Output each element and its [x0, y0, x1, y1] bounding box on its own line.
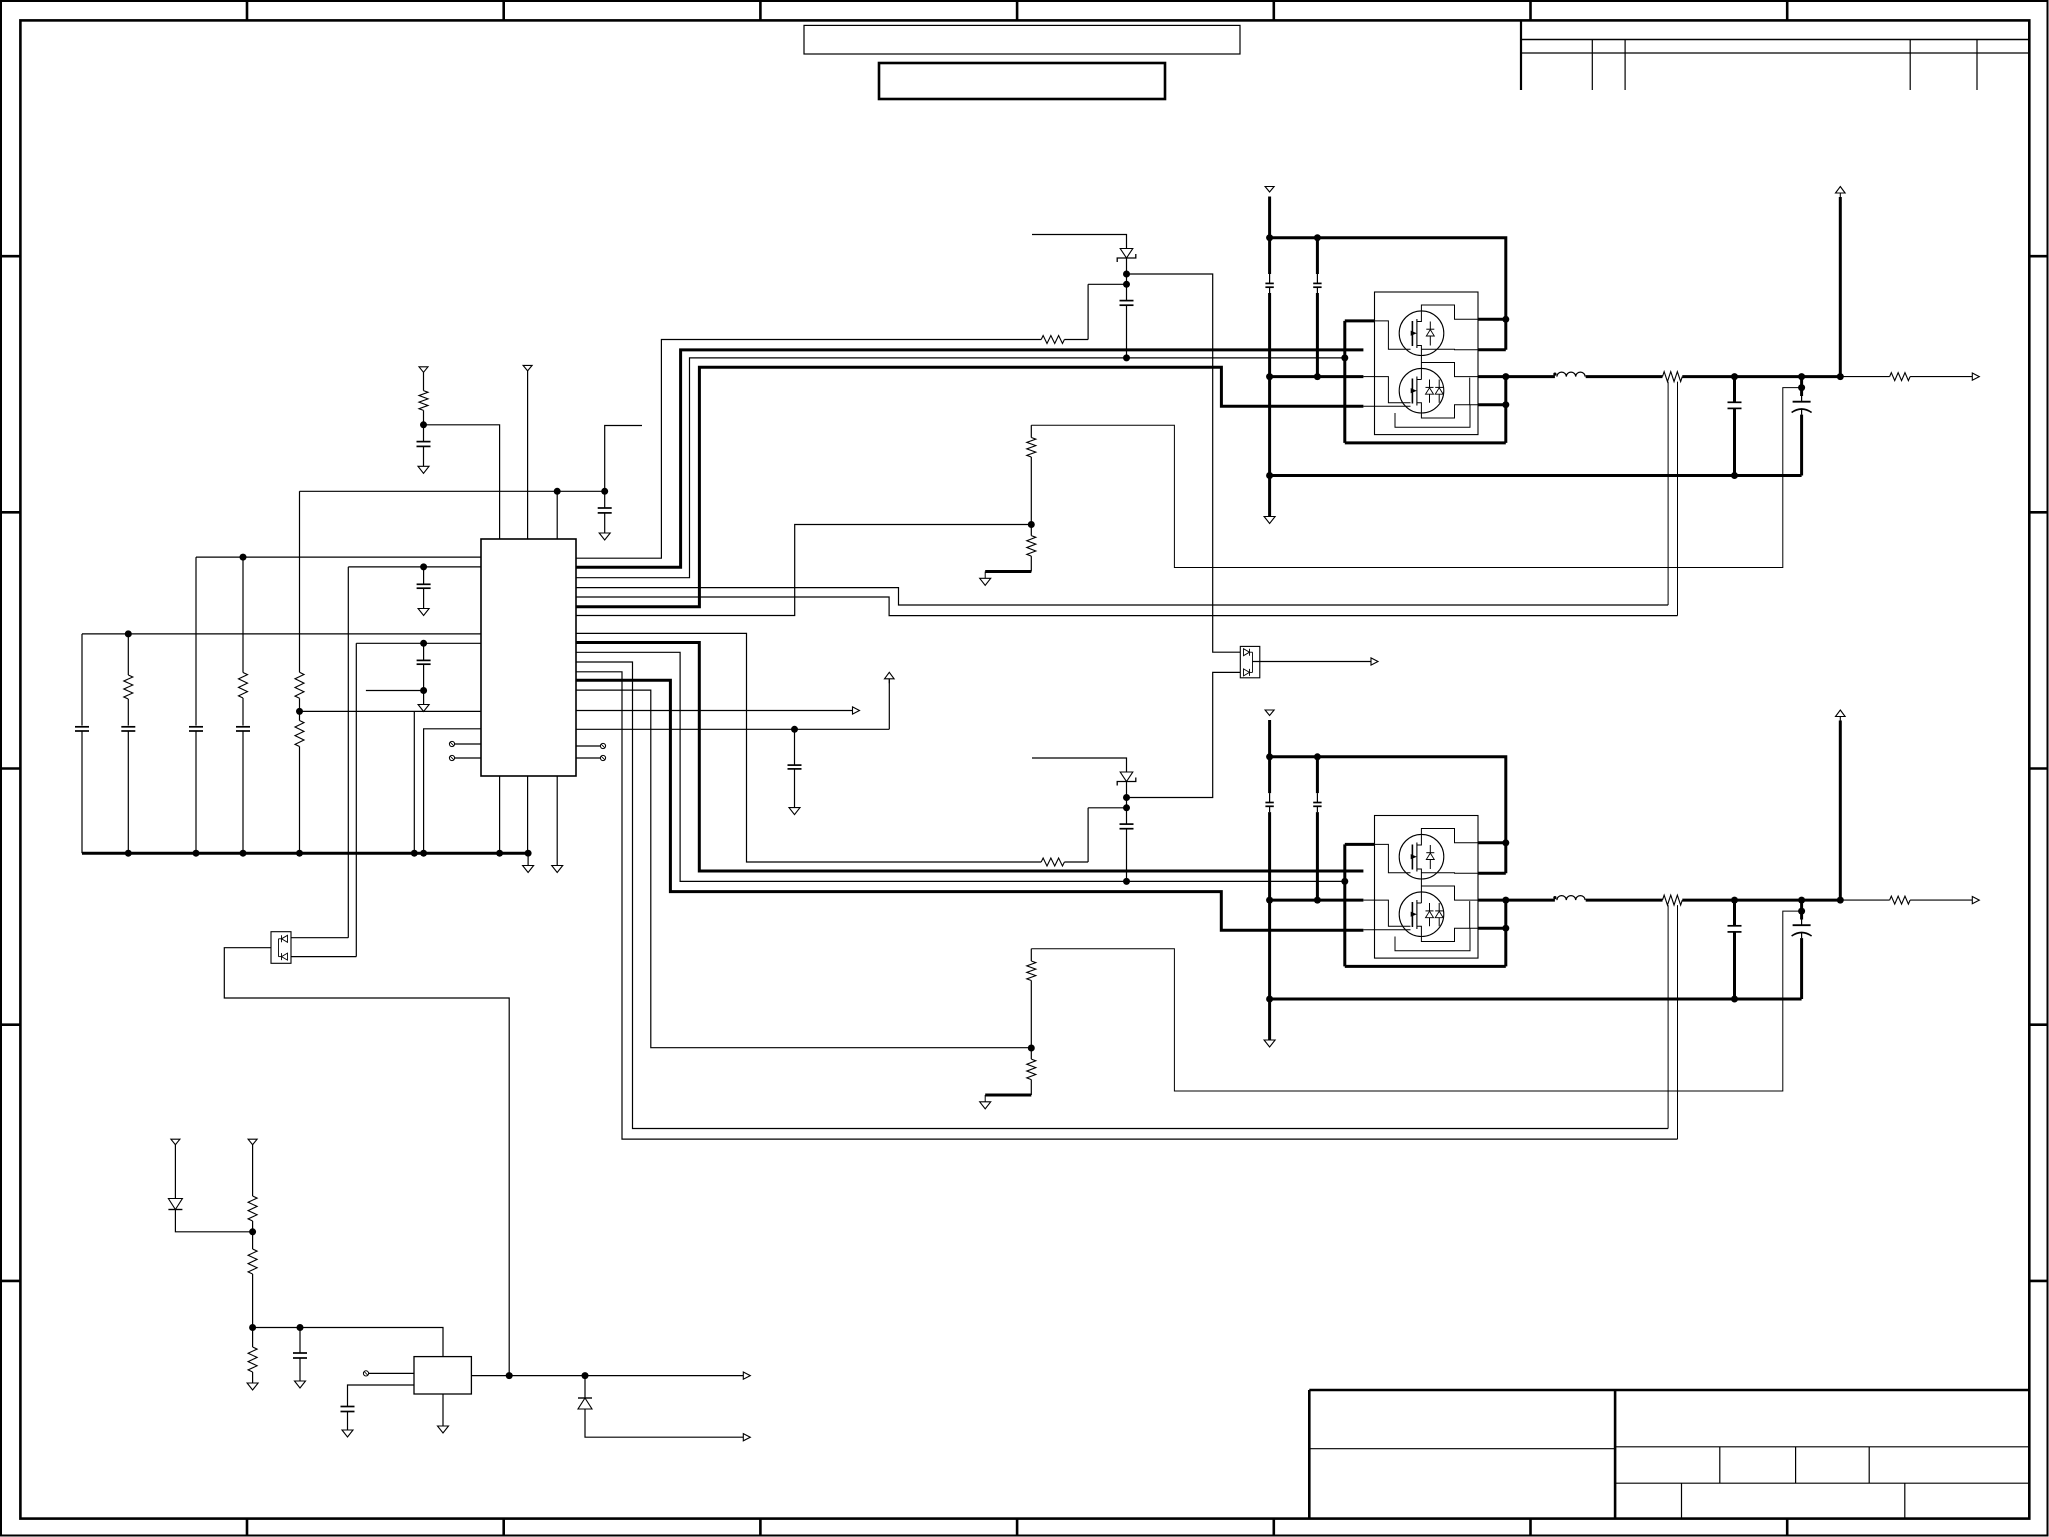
package inner right link	[1469, 901, 1471, 928]
feedback path VOUT to divider	[1031, 911, 1801, 1091]
ground below C9	[295, 1381, 306, 1388]
junction VCC bypass	[791, 726, 798, 733]
junction on y567 at x423	[420, 563, 427, 570]
SW output (thick) to inductor	[1506, 375, 1555, 378]
input cap leg x1317	[1316, 238, 1319, 274]
capacitor C2	[598, 507, 612, 509]
wire D5 common to U2 output node	[224, 948, 509, 1376]
ground below U2	[438, 1426, 449, 1433]
wire U1 pin VREF to divider node A	[424, 425, 500, 539]
junction on y557 at x243	[240, 554, 247, 561]
junction on y643 at x423	[420, 640, 427, 647]
wire diode D4 lower pin to boost node 2	[1127, 672, 1241, 797]
wire LDRV1 (thick): pin y607 up x699 right y367.3 jog to y406.2	[576, 367, 1363, 606]
wire down to D7	[584, 1376, 586, 1398]
junction C-in2 / PGND stub	[1314, 373, 1321, 380]
ground below bus end	[523, 866, 534, 873]
junction FB divider mid	[1028, 521, 1035, 528]
wire CS1- : pin y597 step to y615.6	[576, 597, 1678, 616]
wire U1 pin SS to node y491	[556, 491, 558, 539]
wire D5 pin A to x348	[291, 937, 348, 939]
wire U1 bottom pin 3 to ground	[556, 776, 558, 866]
junction VIN rail / input cap leg 2	[1314, 753, 1321, 760]
junction SS node	[554, 488, 561, 495]
junction VIN rail / input cap leg 1	[1266, 753, 1273, 760]
MOSFET Q2A (high side)	[1399, 834, 1444, 879]
wire x414 down to GND bus	[413, 711, 415, 853]
capacitor C10	[341, 1406, 355, 1408]
wire x243 down to R2	[242, 557, 244, 672]
ground flag PGND	[1264, 517, 1275, 524]
wire node B left	[1088, 283, 1126, 285]
diode D5b symbol	[282, 953, 288, 960]
output branch resistor and net arrow	[1840, 376, 1889, 378]
diode D4a symbol	[1244, 649, 1250, 656]
dual diode D5 package box	[271, 932, 291, 964]
sense resistor Rs1	[1663, 372, 1683, 382]
ground below C10	[342, 1430, 353, 1437]
sense resistor Rs2	[1663, 895, 1683, 905]
no-connect circle pin (right)	[600, 743, 605, 748]
junction at x604 on y491	[601, 488, 608, 495]
junction FB tap	[1798, 908, 1805, 915]
wire U1 left pin y729	[424, 729, 481, 853]
input capacitor C-in1	[1265, 282, 1273, 284]
junction on y634 at x128	[125, 630, 132, 637]
drain stubs D1 (thick)	[1478, 841, 1506, 844]
output capacitor leg 2 (polarized)	[1800, 900, 1803, 919]
wire U2 bottom pin to ground	[442, 1394, 444, 1426]
resistor R5	[295, 721, 304, 747]
inductor L1	[1553, 373, 1556, 376]
wire HDRV1 (thick): pin y567 up x680 right y349.9	[576, 350, 1363, 567]
wire SYNC out with net arrow	[576, 710, 853, 712]
wire internal D4 common	[1252, 652, 1254, 672]
input cap leg x1269 with power flag and ground	[1265, 187, 1274, 193]
bootstrap capacitor C-bst1	[1120, 300, 1134, 302]
power flag and resistor chain x252	[248, 1139, 257, 1145]
resistor R3 x128	[124, 675, 133, 699]
regulator U2	[414, 1357, 471, 1394]
wire SW1 sense: pin y578 up x689 right y357.9	[576, 358, 1345, 578]
junction bus x128	[125, 850, 132, 857]
wire D4 output with net arrow	[1253, 661, 1372, 663]
capacitor C7 x128	[121, 726, 135, 728]
wire x128 down to R3	[127, 634, 129, 675]
body diode QB	[1429, 903, 1431, 911]
net arrow VOUT	[1972, 373, 1979, 380]
wire x604 node to C2	[604, 491, 606, 508]
capacitor C1 at node A	[417, 441, 431, 443]
wire U2 output	[471, 1375, 743, 1377]
junction FB divider mid	[1028, 1045, 1035, 1052]
body diode QA	[1429, 322, 1431, 330]
wire U1 left pin y557	[196, 556, 481, 558]
junction output cap 2	[1798, 897, 1805, 904]
body diode QB	[1438, 380, 1440, 388]
divider chain x299 (R4,R5)	[299, 491, 301, 672]
wire D5 pin B to x356	[291, 956, 356, 958]
junction SW2/bootstrap cap 2	[1123, 878, 1130, 885]
ground below pin 3	[552, 866, 563, 873]
output capacitor leg 2 (polarized)	[1800, 377, 1803, 396]
wire BOOST1: pin y558 up x661 right y339	[576, 340, 1041, 559]
junction bus x299	[296, 850, 303, 857]
output capacitor Co1a	[1728, 401, 1742, 403]
wire CS1+ : pin y587.6 step to y605	[576, 588, 1668, 605]
net arrow right U2 output	[743, 1372, 750, 1379]
wire U2 left pin 2 to C10	[348, 1385, 415, 1407]
capacitor C3 x196	[189, 726, 203, 728]
wire U1 left pin y643	[356, 642, 481, 644]
diode D7	[578, 1397, 592, 1399]
polarized capacitor Co2b	[1793, 924, 1811, 926]
junction R1/C1 node A	[420, 421, 427, 428]
net stub wire to zener D1	[1032, 235, 1127, 249]
long wire x348 down to dual diode D5	[347, 567, 349, 938]
capacitor C6 x82	[75, 726, 89, 728]
VIN rail (thick)	[1270, 238, 1506, 350]
junction SW1/bootstrap cap	[1123, 354, 1130, 361]
body diode QB	[1429, 380, 1431, 388]
wire U1 pin VDD to power flag	[527, 371, 529, 539]
resistor R-boost2	[1041, 858, 1064, 866]
input capacitor C-in2	[1313, 282, 1321, 284]
junction bootstrap node A	[1123, 794, 1130, 801]
net stub wire to zener D2	[1032, 758, 1127, 772]
border zone ticks left and right edges	[1, 255, 20, 258]
junction C9 tap	[297, 1324, 304, 1331]
input capacitor C-in2	[1313, 802, 1321, 804]
wire S1 left loop	[1343, 844, 1346, 966]
junction output cap 1	[1731, 373, 1738, 380]
junction bootstrap node B	[1123, 281, 1130, 288]
resistor Rfb2b	[1027, 1059, 1036, 1080]
resistor R4	[295, 672, 304, 698]
ground below divider	[980, 578, 991, 585]
stub wire up-right from x604 node	[605, 426, 642, 492]
capacitor C4 x243	[236, 726, 250, 728]
package inner right link	[1469, 378, 1471, 405]
resistor Ro1	[1890, 373, 1911, 381]
ground below divider	[980, 1102, 991, 1109]
junction bootstrap node B	[1123, 804, 1130, 811]
no-connect circle pin (left)	[449, 755, 454, 760]
junction bootstrap node A	[1123, 271, 1130, 278]
GND return rail (thick)	[1270, 474, 1802, 477]
junction GND return	[1266, 472, 1273, 479]
package inner frame line	[1395, 928, 1470, 951]
resistor R-boost1	[1041, 336, 1064, 344]
power flag and diode D6 bottom left	[171, 1139, 180, 1145]
junction PGND stub	[1266, 373, 1273, 380]
no-connect circle pin (left)	[449, 741, 454, 746]
ground below R9	[247, 1383, 258, 1390]
wire SW bottom rail	[1345, 441, 1506, 444]
input stub with circle pin	[363, 1371, 368, 1376]
junction SW / drain2 stub	[1502, 925, 1509, 932]
revision table	[1520, 20, 1522, 90]
net arrow right y710	[853, 707, 860, 714]
wire down x196	[195, 557, 197, 726]
VOUT riser with power flag	[1839, 721, 1842, 901]
input cap leg x1317	[1316, 757, 1319, 793]
dual diode D4 package box	[1240, 646, 1260, 677]
junction GND return	[1731, 996, 1738, 1003]
wire boost2 up to zener node 2	[1087, 808, 1089, 862]
junction bus x423	[420, 850, 427, 857]
junction R7/R8	[249, 1228, 256, 1235]
resistor Ro2	[1890, 896, 1911, 904]
VOUT riser with power flag	[1839, 197, 1842, 377]
power flag VCC riser	[885, 672, 895, 679]
resistor R2 x243	[239, 673, 248, 699]
wire S1 stub	[1345, 843, 1375, 846]
border zone ticks top and bottom edges	[246, 1, 249, 20]
wire FB2: pin y690 down x650.8 right y1047.7	[576, 690, 1031, 1048]
input capacitor C-in1	[1265, 802, 1273, 804]
wire y491 from x299 to cap chain x604	[300, 490, 605, 492]
diode D6	[168, 1199, 182, 1210]
wire U1 bottom pin 1 to bus	[499, 776, 501, 853]
net arrow right from D4	[1371, 658, 1378, 665]
long wire x356 down to dual diode D5	[355, 643, 357, 956]
diode D5a symbol	[282, 935, 288, 942]
wire HDRV2 (thick): pin y642.5 down x699.3 right y871	[576, 643, 1363, 872]
dual MOSFET package Q2 outline	[1375, 816, 1479, 959]
wire CS2+ : pin y662 down x632.5 right y1128.5	[576, 662, 1668, 1129]
wire divider bottom (thick)	[985, 570, 1031, 573]
ground below C5	[418, 609, 429, 616]
output capacitor Co2a	[1728, 925, 1742, 927]
output capacitor leg 1	[1733, 377, 1736, 403]
wire SW2 sense: pin y652 down x680.1 right y881.4	[576, 652, 1345, 881]
body diode QA	[1429, 845, 1431, 853]
junction SW node	[1502, 897, 1509, 904]
wire CS2- : pin y671.8 down x622 right y1139.1	[576, 672, 1678, 1139]
junction bus x499	[496, 850, 503, 857]
junction GND return	[1266, 996, 1273, 1003]
wire boost1 up to zener node	[1087, 284, 1089, 339]
feedback path VOUT to divider	[1031, 388, 1801, 568]
output capacitor leg 1	[1733, 900, 1736, 926]
wire U1 left pin y634	[82, 633, 481, 635]
wire C2 to ground	[604, 513, 606, 533]
feedback divider chain	[1030, 425, 1032, 437]
junction PGND stub	[1266, 897, 1273, 904]
junction VOUT riser	[1837, 373, 1844, 380]
junction SW / drain2 stub	[1502, 401, 1509, 408]
body diode QB	[1438, 903, 1440, 911]
wire S1 left loop	[1343, 321, 1346, 443]
junction VIN drop / drain stub	[1502, 839, 1509, 846]
package inner frame line	[1395, 405, 1470, 428]
polarized capacitor Co1b	[1793, 401, 1811, 403]
wire node to regulator U2 top	[253, 1328, 443, 1357]
wire U1 bottom pin 2 to bus end	[527, 776, 529, 853]
junction bus x414	[411, 850, 418, 857]
PGND stub to package S2 pin (thick)	[1270, 375, 1364, 378]
stub wire left from C8 node	[366, 690, 424, 692]
ground flag PGND	[1264, 1040, 1275, 1047]
output branch resistor and net arrow	[1840, 899, 1889, 901]
VIN rail (thick)	[1270, 757, 1506, 873]
wire BOOST2: pin y633 down x746.5 right y862	[576, 633, 1041, 862]
power flag on VDD pin	[523, 365, 532, 371]
GND bus (thick)	[82, 852, 528, 855]
wire bootstrap cap to SW sense	[1126, 305, 1128, 358]
controller IC U1	[481, 539, 576, 776]
junction U2 out / D7	[582, 1372, 589, 1379]
feedback divider chain	[1030, 949, 1032, 961]
title banner box 1	[804, 25, 1240, 54]
resistor R7	[248, 1196, 257, 1221]
resistor R9	[248, 1347, 257, 1372]
bootstrap capacitor C-bst2	[1120, 823, 1134, 825]
junction SW node	[1502, 373, 1509, 380]
MOSFET Q1B (low side)	[1399, 368, 1444, 413]
junction bus x243	[240, 850, 247, 857]
wire U1 left pin y567	[348, 566, 481, 568]
SW output (thick) to inductor	[1506, 899, 1555, 902]
MOSFET Q1A (high side)	[1399, 311, 1444, 356]
wire bootstrap cap to SW sense	[1126, 829, 1128, 882]
sense kelvin legs	[1667, 905, 1669, 1128]
input cap leg x1269 with power flag and ground	[1265, 710, 1274, 716]
junction GND return	[1731, 472, 1738, 479]
title banner box 2	[879, 63, 1165, 99]
wire internal D5 common	[278, 939, 280, 957]
junction C-in2 / PGND stub	[1314, 897, 1321, 904]
junction output cap 2	[1798, 373, 1805, 380]
resistor chain R1 with power flag at x423	[419, 367, 428, 373]
resistor R8	[248, 1249, 257, 1274]
junction R8/R9 node	[249, 1324, 256, 1331]
sense kelvin legs	[1667, 382, 1669, 605]
wire SW bottom rail	[1345, 965, 1506, 968]
junction U2 out / feed from D5	[506, 1372, 513, 1379]
capacitor C9	[293, 1352, 307, 1354]
MOSFET Q2B (low side)	[1399, 892, 1444, 937]
ground below C1	[418, 466, 429, 473]
junction bus x528	[525, 850, 532, 857]
junction VIN rail / input cap leg 1	[1266, 234, 1273, 241]
wire LDRV2 (thick): pin y680.3 down x670.4 right y891.6 jog y930.2	[576, 680, 1363, 930]
zener diode DZ1	[1120, 249, 1133, 259]
diode D4b symbol	[1244, 669, 1250, 676]
wire divider bottom (thick)	[985, 1094, 1031, 1097]
capacitor C5 x423	[417, 583, 431, 585]
inductor L2	[1553, 896, 1556, 899]
dual MOSFET package Q1 outline	[1375, 292, 1479, 435]
ground below C-vcc	[789, 808, 800, 815]
junction SW1 sense to package loop	[1341, 354, 1348, 361]
capacitor C-vcc	[788, 764, 802, 766]
junction FB tap	[1798, 384, 1805, 391]
capacitor C8 x423	[417, 659, 431, 661]
PGND stub to package S2 pin (thick)	[1270, 899, 1364, 902]
wire S1 stub	[1345, 319, 1375, 322]
junction VOUT riser	[1837, 897, 1844, 904]
net arrow VOUT	[1972, 897, 1979, 904]
ground below C2	[599, 533, 610, 540]
GND return rail (thick)	[1270, 998, 1802, 1001]
junction VIN rail / input cap leg 2	[1314, 234, 1321, 241]
junction R4/R5	[296, 708, 303, 715]
junction C8 bottom node	[420, 687, 427, 694]
resistor Rfb1a	[1027, 438, 1036, 458]
junction bus x196	[193, 850, 200, 857]
ground below C8	[418, 705, 429, 712]
resistor Rfb1b	[1027, 536, 1036, 557]
wire node B left	[1088, 807, 1126, 809]
resistor Rfb2a	[1027, 961, 1036, 981]
wire U1 left pin y711 to divider junction	[300, 710, 482, 712]
title block	[1309, 1389, 2029, 1392]
drain stubs D1 (thick)	[1478, 318, 1506, 321]
junction VIN drop / drain stub	[1502, 316, 1509, 323]
junction SW2 sense to package loop 2	[1341, 878, 1348, 885]
junction output cap 1	[1731, 897, 1738, 904]
net arrow right below D7	[743, 1434, 750, 1441]
wire down x82	[81, 634, 83, 726]
wire VCC pin y729 to power flag riser	[576, 728, 889, 730]
no-connect circle pin (right)	[600, 755, 605, 760]
wire FB1: pin y615.5 up x794.7 left to divider	[576, 525, 1031, 616]
zener diode DZ2	[1120, 772, 1133, 782]
wire boost node 1 right to diode D4	[1127, 274, 1241, 652]
